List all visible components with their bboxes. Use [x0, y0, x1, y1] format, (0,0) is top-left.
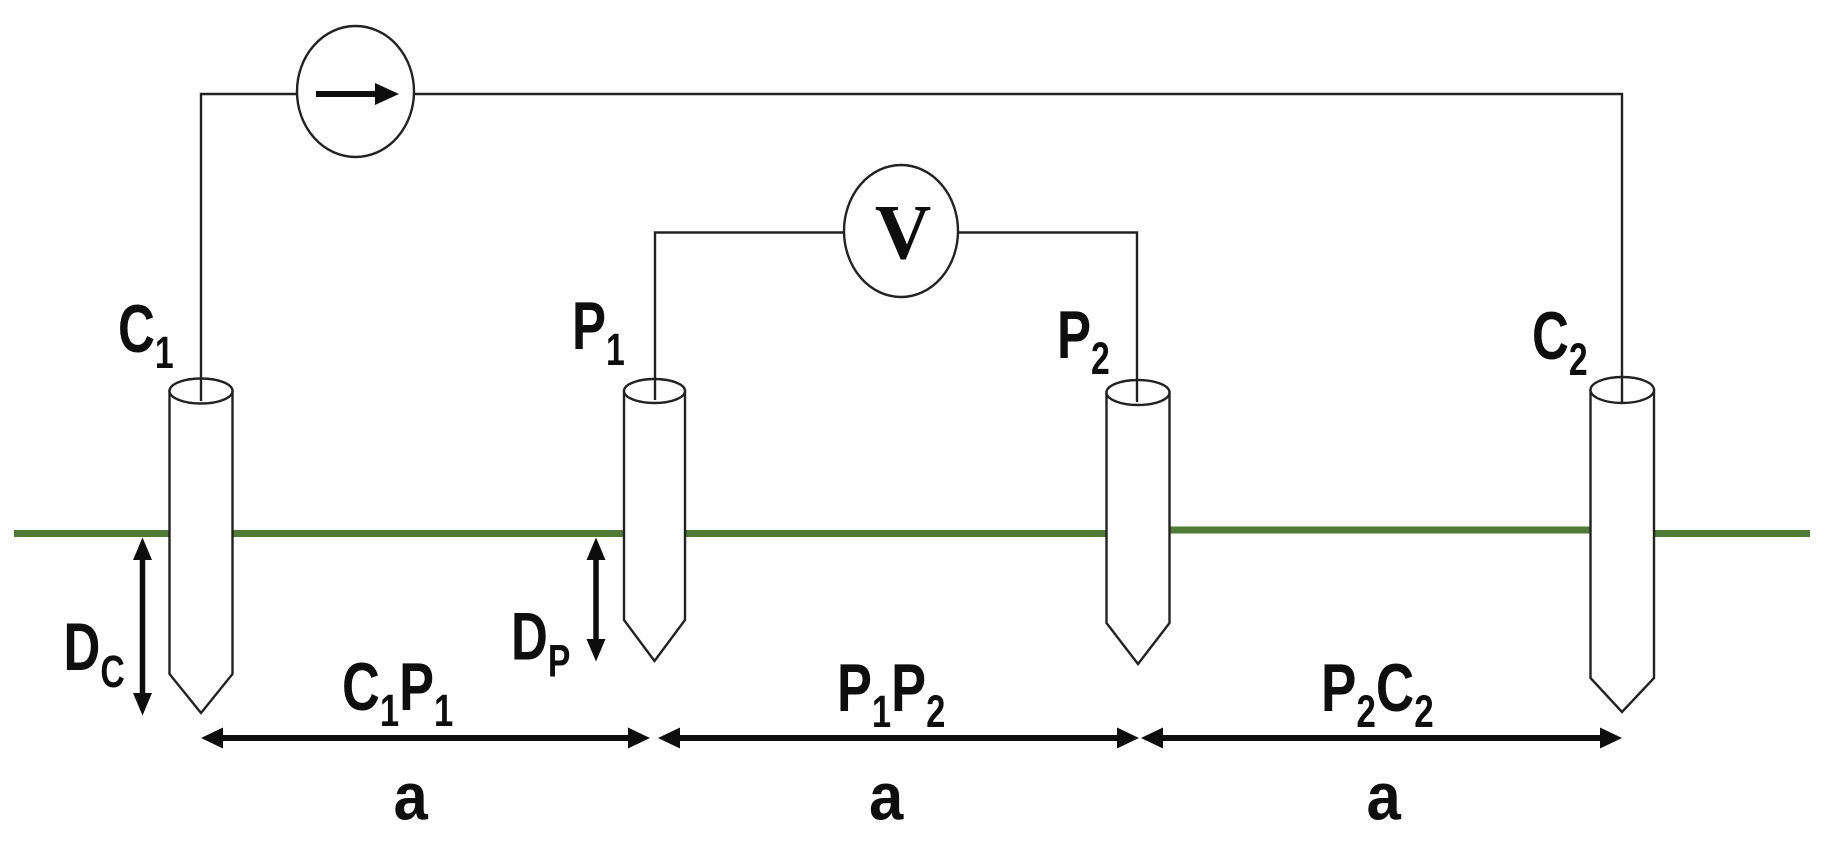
electrode P1 body [624, 391, 685, 661]
electrode C1 top ellipse [170, 379, 233, 404]
electrode C2 top ellipse [1591, 377, 1655, 403]
electrode P2 body [1107, 393, 1170, 665]
dimension arrow P1P2 [658, 728, 1139, 749]
electrode C2 body [1591, 390, 1655, 712]
ground surface line left of P2 [14, 530, 1140, 537]
svg-text:a: a [394, 759, 429, 834]
wire voltmeter to P2 [957, 233, 1137, 403]
ground surface line right of C2 [1610, 530, 1810, 537]
svg-text:V: V [875, 189, 931, 276]
wire C1 to current source [201, 94, 298, 401]
svg-text:a: a [1367, 759, 1402, 834]
dimension arrow P2C2 [1141, 728, 1622, 749]
arrow DP depth [587, 538, 606, 662]
dimension arrow C1P1 [201, 728, 650, 749]
current source arrow [316, 91, 378, 97]
current source circle [297, 26, 414, 157]
electrode P1 top ellipse [624, 379, 685, 403]
wire current source to C2 [414, 94, 1622, 403]
electrode C1 body [170, 391, 233, 713]
voltmeter circle U-V [844, 165, 958, 297]
electrode P2 top ellipse [1107, 380, 1170, 405]
ground surface line P2 to C2 [1140, 527, 1610, 534]
arrow DC depth [133, 538, 152, 716]
svg-text:a: a [869, 759, 904, 834]
wire P1 to voltmeter [655, 233, 845, 401]
